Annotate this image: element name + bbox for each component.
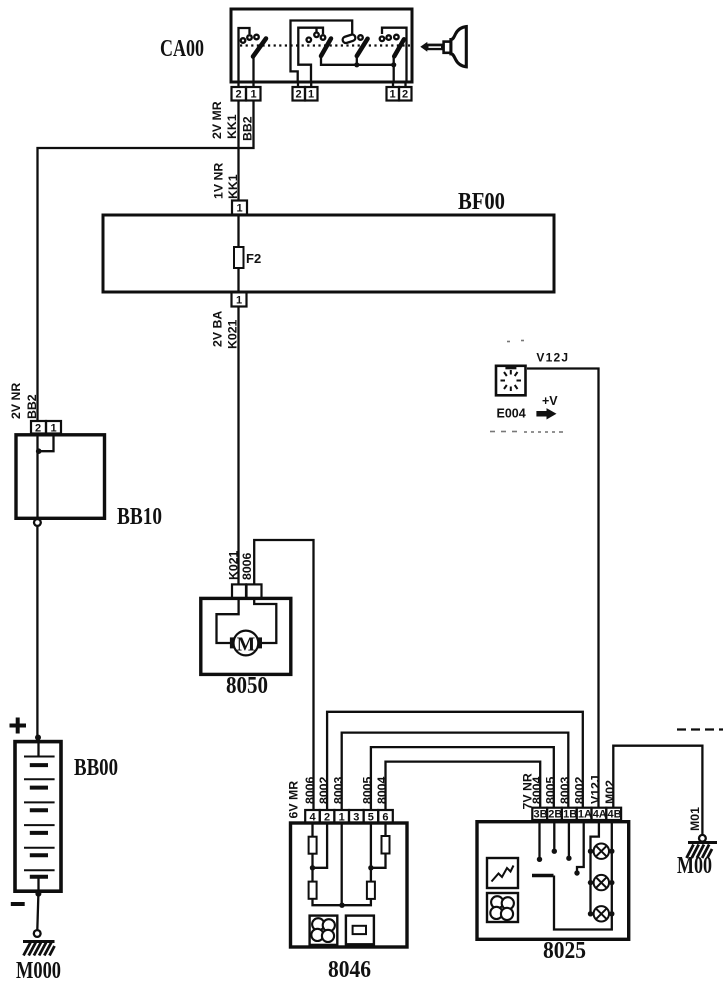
svg-text:BF00: BF00: [458, 189, 505, 215]
svg-text:5: 5: [368, 812, 374, 824]
svg-text:BB2: BB2: [25, 394, 39, 419]
svg-text:BB10: BB10: [117, 504, 162, 530]
svg-text:1: 1: [390, 89, 396, 101]
svg-text:8003: 8003: [558, 776, 572, 804]
svg-text:1V NR: 1V NR: [212, 163, 226, 199]
svg-text:F2: F2: [246, 251, 261, 266]
svg-text:4A: 4A: [593, 809, 607, 821]
svg-text:2V MR: 2V MR: [210, 101, 224, 139]
svg-text:V12J: V12J: [536, 351, 569, 365]
svg-text:8002: 8002: [317, 776, 331, 804]
svg-text:8003: 8003: [331, 776, 345, 804]
svg-text:M00: M00: [677, 853, 712, 879]
svg-text:K021: K021: [227, 550, 241, 580]
svg-text:M: M: [237, 635, 255, 656]
svg-text:M02: M02: [603, 780, 617, 804]
svg-text:2B: 2B: [548, 809, 562, 821]
svg-text:BB2: BB2: [241, 116, 255, 141]
svg-text:8005: 8005: [361, 776, 375, 804]
svg-text:1: 1: [236, 295, 242, 307]
svg-text:1: 1: [308, 89, 314, 101]
svg-text:2: 2: [296, 89, 302, 101]
svg-text:KK1: KK1: [226, 174, 240, 199]
svg-text:2: 2: [236, 89, 242, 101]
svg-text:6V MR: 6V MR: [287, 781, 301, 819]
svg-text:+V: +V: [542, 394, 558, 408]
svg-text:K021: K021: [226, 319, 240, 349]
svg-text:E004: E004: [497, 407, 526, 421]
svg-text:8004: 8004: [375, 776, 389, 804]
svg-text:M01: M01: [688, 807, 702, 831]
svg-text:1A: 1A: [578, 809, 592, 821]
svg-text:8050: 8050: [226, 673, 268, 699]
svg-text:1: 1: [251, 89, 257, 101]
svg-text:8004: 8004: [530, 776, 544, 804]
svg-text:6: 6: [382, 812, 388, 824]
svg-text:CA00: CA00: [160, 36, 204, 62]
svg-text:2: 2: [324, 812, 330, 824]
svg-text:8005: 8005: [544, 776, 558, 804]
svg-text:4: 4: [310, 812, 317, 824]
svg-text:8006: 8006: [240, 552, 254, 580]
svg-text:2V BA: 2V BA: [211, 311, 225, 347]
svg-text:V12J: V12J: [588, 775, 602, 804]
svg-text:1: 1: [51, 423, 57, 435]
svg-text:3: 3: [353, 812, 359, 824]
svg-text:2: 2: [402, 89, 408, 101]
svg-text:8025: 8025: [543, 938, 586, 964]
svg-text:3B: 3B: [534, 809, 548, 821]
svg-text:M000: M000: [16, 958, 61, 984]
svg-text:8046: 8046: [328, 957, 371, 983]
svg-text:8002: 8002: [573, 776, 587, 804]
svg-text:KK1: KK1: [225, 114, 239, 139]
svg-text:8006: 8006: [303, 776, 317, 804]
svg-text:1: 1: [339, 812, 345, 824]
svg-text:1: 1: [237, 203, 243, 215]
svg-text:4B: 4B: [608, 809, 622, 821]
svg-text:BB00: BB00: [74, 755, 118, 781]
svg-text:1B: 1B: [563, 809, 577, 821]
svg-text:2: 2: [35, 423, 41, 435]
svg-text:2V NR: 2V NR: [9, 383, 23, 419]
